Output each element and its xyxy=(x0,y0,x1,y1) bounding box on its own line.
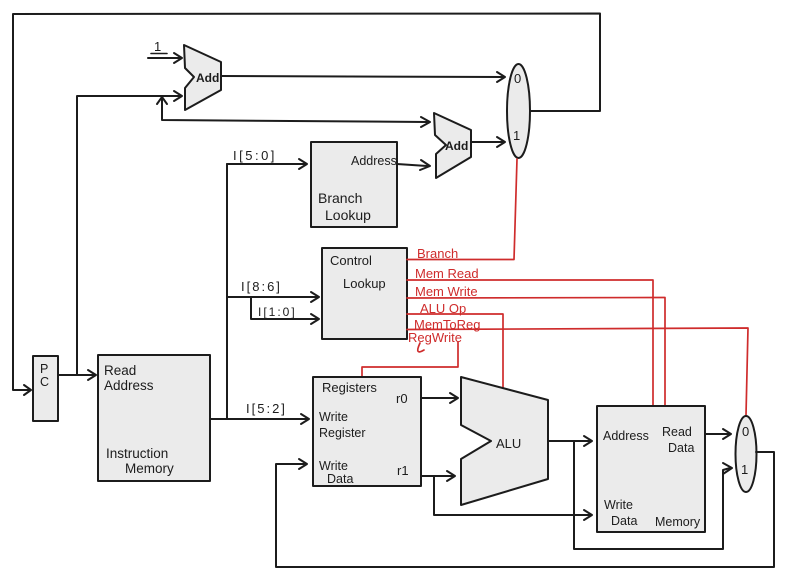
wire arrow into Add2 top input xyxy=(421,117,430,127)
svg-text:Write: Write xyxy=(319,410,348,424)
svg-text:Instruction: Instruction xyxy=(106,446,168,461)
svg-text:r0: r0 xyxy=(396,391,408,406)
wire: mux M2 output back to Registers Write Data xyxy=(276,452,774,567)
svg-text:0: 0 xyxy=(742,424,749,439)
svg-text:P: P xyxy=(40,362,48,376)
svg-text:Read: Read xyxy=(104,363,136,378)
svg-text:I[5:0]: I[5:0] xyxy=(233,148,277,163)
mux M2 (write-back mux) xyxy=(736,416,757,492)
wire: ALU result bypass to mux M2 input 1 xyxy=(574,441,730,549)
svg-text:Data: Data xyxy=(668,441,694,455)
svg-text:C: C xyxy=(40,375,49,389)
wire: constant 1 underline xyxy=(151,53,167,55)
block Instruction Memory xyxy=(98,355,210,481)
wire: r1 branch down to Memory Write Data xyxy=(434,476,590,515)
mux M1 (PC source mux) xyxy=(507,64,530,158)
svg-text:Register: Register xyxy=(319,426,366,440)
wire: PC output to Instruction Memory xyxy=(58,374,94,376)
svg-text:1: 1 xyxy=(154,39,161,54)
svg-text:Lookup: Lookup xyxy=(325,207,371,223)
svg-text:Branch: Branch xyxy=(318,190,362,206)
svg-text:Add: Add xyxy=(445,139,468,153)
svg-text:Write: Write xyxy=(604,498,633,512)
wire: PC value up to Add1 lower input xyxy=(77,96,181,375)
svg-text:Write: Write xyxy=(319,459,348,473)
block Registers xyxy=(313,377,421,486)
svg-text:Address: Address xyxy=(603,429,649,443)
wire: Branch Lookup Address output to Add2 lower input xyxy=(397,164,427,166)
wire: Add1 output to mux M1 input 0 xyxy=(221,76,504,77)
svg-text:1: 1 xyxy=(513,128,520,143)
wire arrow up at junction xyxy=(157,97,167,104)
svg-text:I[1:0]: I[1:0] xyxy=(258,305,297,319)
wire: instruction bus vertical xyxy=(226,164,228,419)
wire: Add2 output to mux M1 input 1 xyxy=(471,141,504,143)
svg-text:Address: Address xyxy=(351,154,397,168)
block Control Lookup xyxy=(322,248,407,339)
svg-text:Control: Control xyxy=(330,253,372,268)
wire: r1 output to ALU lower input xyxy=(421,475,453,477)
block Branch Lookup xyxy=(311,142,397,227)
wire arrow into PC xyxy=(24,385,31,395)
svg-text:Read: Read xyxy=(662,425,692,439)
svg-text:Lookup: Lookup xyxy=(343,276,386,291)
wire: junction branch down to Add2 top input xyxy=(162,96,427,122)
adder Add1 xyxy=(184,45,221,110)
wire: Memory Read Data to mux M2 input 0 xyxy=(705,433,729,435)
svg-text:Memory: Memory xyxy=(655,515,701,529)
svg-text:RegWrite: RegWrite xyxy=(408,330,462,345)
svg-text:Address: Address xyxy=(104,378,154,393)
svg-text:1: 1 xyxy=(741,462,748,477)
wire: r0 output to ALU upper input xyxy=(421,397,456,399)
svg-text:Mem Read: Mem Read xyxy=(415,266,479,281)
svg-text:I[5:2]: I[5:2] xyxy=(246,401,287,416)
svg-text:Registers: Registers xyxy=(322,380,377,395)
svg-text:Memory: Memory xyxy=(125,461,174,476)
svg-text:ALU: ALU xyxy=(496,436,521,451)
register PC xyxy=(33,356,58,421)
wire: PC-mux output loop (top border) xyxy=(13,14,600,391)
svg-text:Mem Write: Mem Write xyxy=(415,284,478,299)
svg-text:Data: Data xyxy=(327,472,353,486)
wire: constant 1 into adder Add1 xyxy=(148,57,181,59)
wire: ALU output to Memory Address xyxy=(548,440,590,442)
op-amp-shape ALU xyxy=(461,377,548,505)
adder Add2 xyxy=(434,113,471,178)
svg-text:Data: Data xyxy=(611,514,637,528)
svg-text:I[8:6]: I[8:6] xyxy=(241,279,282,294)
block Memory xyxy=(597,406,705,532)
svg-text:r1: r1 xyxy=(397,463,409,478)
svg-text:0: 0 xyxy=(514,71,521,86)
svg-text:Add: Add xyxy=(196,71,219,85)
